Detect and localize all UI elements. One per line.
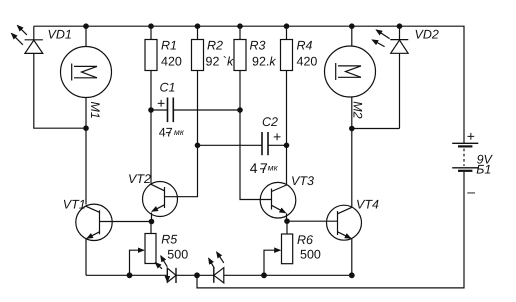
svg-text:VT1: VT1	[63, 197, 86, 211]
svg-text:R4: R4	[297, 39, 313, 53]
svg-text:92 `k: 92 `k	[206, 54, 235, 68]
svg-text:VD2: VD2	[415, 28, 439, 42]
svg-text:VT2: VT2	[128, 172, 151, 186]
svg-text:VD1: VD1	[48, 28, 72, 42]
svg-text:500: 500	[300, 247, 321, 261]
svg-text:420: 420	[297, 54, 318, 68]
svg-text:–: –	[467, 184, 475, 200]
svg-text:мк: мк	[268, 162, 279, 172]
svg-text:47: 47	[250, 160, 268, 176]
svg-text:92.k: 92.k	[252, 54, 276, 68]
svg-text:500: 500	[167, 248, 188, 262]
svg-text:R2: R2	[207, 39, 223, 53]
svg-text:R5: R5	[161, 232, 177, 246]
svg-text:C2: C2	[262, 115, 278, 129]
svg-text:+: +	[157, 95, 165, 111]
svg-text:+: +	[467, 128, 475, 144]
svg-text:VT4: VT4	[356, 198, 379, 212]
svg-text:M1: M1	[88, 102, 102, 119]
svg-text:VT3: VT3	[291, 174, 314, 188]
svg-text:420: 420	[161, 54, 182, 68]
svg-text:+: +	[273, 129, 281, 145]
svg-text:M2: M2	[351, 101, 365, 118]
svg-text:R1: R1	[161, 39, 177, 53]
svg-text:R6: R6	[297, 233, 313, 247]
svg-text:мк: мк	[174, 127, 185, 137]
svg-text:Б1: Б1	[476, 162, 491, 176]
svg-text:R3: R3	[250, 39, 266, 53]
svg-text:C1: C1	[160, 81, 176, 95]
svg-text:47: 47	[159, 125, 173, 139]
